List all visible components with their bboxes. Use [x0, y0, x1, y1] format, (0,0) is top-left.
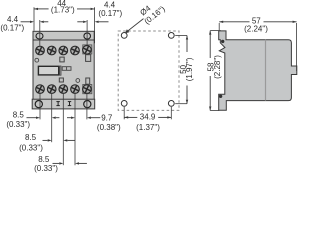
bottom extension line t1	[39, 93, 41, 119]
dim 4.4 right inner arrow	[77, 21, 83, 23]
dim 58 arrows	[209, 31, 211, 35]
hole top-right	[168, 33, 174, 39]
side view clip screw bottom	[219, 95, 222, 98]
front view body	[33, 31, 94, 99]
label window bar	[60, 66, 61, 75]
dim 4.4 left inner arrow	[40, 21, 44, 23]
clamp I-beam right	[68, 102, 71, 106]
side view silhouette	[219, 31, 297, 110]
dim 57 ext right	[296, 23, 298, 71]
small square lower middle	[59, 78, 63, 82]
mounting slot left	[36, 33, 43, 39]
dim 44 arrow right	[91, 8, 95, 10]
tall rect lower right	[86, 78, 90, 84]
bottom strip hole right	[84, 101, 91, 108]
svg-text:(0.33"): (0.33")	[6, 120, 30, 129]
bottom extension line t2	[51, 93, 53, 142]
svg-text:(1.97"): (1.97")	[185, 57, 194, 81]
svg-text:(0.38"): (0.38")	[97, 123, 121, 132]
hole top-left	[121, 33, 127, 39]
screw bottom 3	[58, 84, 68, 94]
clamp I-beam left	[56, 102, 59, 106]
small square upper middle	[60, 57, 64, 62]
extension line body right	[94, 7, 96, 43]
hole bottom-right	[168, 101, 174, 107]
cert marks double rect	[62, 67, 71, 71]
dim 57 line	[219, 21, 249, 23]
svg-text:(0.33"): (0.33")	[34, 164, 58, 173]
extension line body left	[33, 7, 35, 31]
small ring upper left	[35, 58, 39, 62]
dim 58 label	[206, 62, 215, 71]
svg-text:(2.24"): (2.24")	[244, 24, 268, 33]
svg-text:(1.37"): (1.37")	[136, 123, 160, 132]
dim 4.4 left leader	[21, 21, 31, 23]
screw top 5	[82, 45, 92, 55]
terminal pad bottom right	[83, 85, 92, 94]
svg-text:34.9: 34.9	[140, 113, 156, 122]
mounting slot right	[84, 33, 91, 39]
tall rect upper right	[86, 55, 91, 62]
screw top 2	[47, 45, 57, 55]
svg-text:9.7: 9.7	[101, 113, 113, 122]
dia 4 label	[138, 3, 152, 17]
tick top-right hole	[175, 35, 187, 37]
svg-text:(0.17"): (0.17")	[0, 24, 24, 33]
label window	[38, 66, 58, 75]
dim 8.5 row2 line	[43, 139, 48, 141]
dia 4 leader	[126, 19, 144, 33]
dim 9.7 line	[67, 117, 71, 119]
screw top 1	[35, 45, 45, 55]
svg-text:8.5: 8.5	[25, 133, 37, 142]
mounting template dashed rect	[118, 31, 179, 110]
bottom extension line t5	[86, 93, 88, 119]
front view top strip line	[33, 39, 94, 41]
svg-text:4.4: 4.4	[7, 15, 19, 24]
dim 34.9 line	[124, 116, 137, 118]
svg-text:8.5: 8.5	[13, 110, 25, 119]
screw bottom 4	[70, 84, 80, 94]
dim 8.5 row1 line	[27, 117, 37, 119]
dim 57 arrows	[219, 21, 223, 23]
svg-text:(0.33"): (0.33")	[19, 143, 43, 152]
screw top 3	[58, 45, 68, 55]
svg-text:8.5: 8.5	[38, 155, 50, 164]
tick bottom-right hole	[175, 103, 187, 105]
screw bottom 5	[82, 84, 92, 94]
dim 58 line	[209, 31, 211, 58]
hole bottom-left	[121, 101, 127, 107]
dim 8.5 row3 line	[53, 162, 60, 164]
dim 58 tick top	[210, 30, 221, 32]
side view divider line	[265, 40, 267, 101]
dim 58 tick bottom	[210, 110, 219, 112]
dim 34.9 extension right	[170, 107, 172, 120]
dim 4.4 right leader	[95, 21, 99, 23]
dim 44 line	[34, 8, 49, 10]
front view bottom strip	[32, 99, 94, 109]
bottom extension line t4	[74, 93, 76, 165]
terminal pad top right	[83, 45, 92, 54]
svg-text:(2.28"): (2.28")	[213, 55, 222, 79]
screw bottom 1	[35, 84, 45, 94]
small ring lower	[76, 79, 80, 83]
screw top 4	[70, 45, 80, 55]
svg-text:(1.73"): (1.73")	[51, 6, 75, 15]
bottom extension line t3	[62, 93, 64, 165]
dim 50 arrows	[186, 36, 188, 40]
extension line slot left	[39, 20, 41, 46]
extension line slot right	[86, 20, 88, 45]
dim 34.9 arrows	[124, 116, 128, 118]
dim 44 arrow left	[34, 8, 38, 10]
dim 50 line	[186, 36, 188, 53]
side view clip screw top	[221, 40, 224, 43]
dim 34.9 extension left	[123, 107, 125, 120]
svg-text:(0.17"): (0.17")	[98, 9, 122, 18]
dim 57 ext left	[218, 23, 220, 30]
screw bottom 2	[47, 84, 57, 94]
dim 50 label	[179, 64, 188, 73]
bottom strip hole left	[35, 101, 42, 108]
